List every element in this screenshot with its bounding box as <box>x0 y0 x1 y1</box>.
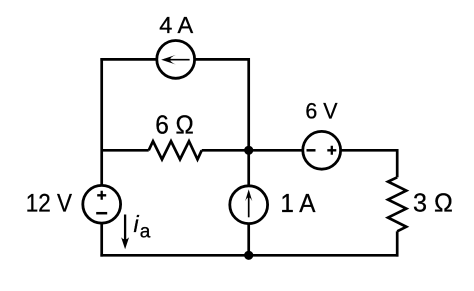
wire 6V source to right rail corner <box>341 149 399 152</box>
wire 1A source to bottom node <box>247 224 250 256</box>
wire right rail lower (3-ohm down to bottom corner) <box>396 231 399 256</box>
svg-text:3 Ω: 3 Ω <box>413 190 453 218</box>
wire top-left horizontal (left rail to 4A source) <box>100 58 156 61</box>
wire top-right horizontal (4A source to right corner) <box>195 58 250 61</box>
current source I1 4 A (circle with left arrow) <box>157 41 195 79</box>
svg-text:12 V: 12 V <box>26 189 72 218</box>
wire bottom horizontal <box>100 254 398 257</box>
wire right rail upper (corner down to 3-ohm resistor) <box>396 149 399 177</box>
resistor R2 3 ohm <box>388 177 406 231</box>
wire 1A source to middle node <box>247 150 250 186</box>
wire right side of 4A loop (down to middle node) <box>247 58 250 150</box>
node B junction dot (bottom node) <box>244 251 253 260</box>
svg-text:4 A: 4 A <box>159 12 193 38</box>
wire middle horizontal left (left rail to 6-ohm resistor) <box>102 149 149 152</box>
svg-text:1 A: 1 A <box>280 190 315 219</box>
current arrow i_a <box>121 215 129 250</box>
wire middle horizontal right (6-ohm to middle node) <box>202 149 250 152</box>
voltage source V2 6 V (circle with - +) <box>303 131 341 169</box>
svg-text:i: i <box>134 211 140 237</box>
wire middle node to 6V source <box>249 149 303 152</box>
voltage source V1 12 V (circle with + over -) <box>83 185 121 223</box>
svg-text:6 Ω: 6 Ω <box>155 111 194 140</box>
node A junction dot (middle node) <box>244 146 253 155</box>
current source I2 1 A (circle with up arrow) <box>230 186 268 224</box>
wire left rail lower (12V source to bottom corner) <box>100 223 103 257</box>
wire left rail vertical (top wire down to 12V source) <box>100 58 103 185</box>
svg-text:a: a <box>140 222 151 243</box>
svg-text:6 V: 6 V <box>305 98 338 123</box>
resistor R1 6 ohm <box>149 141 202 159</box>
